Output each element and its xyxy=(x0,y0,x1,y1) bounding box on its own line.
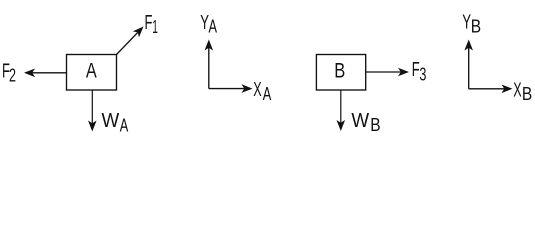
svg-text:B: B xyxy=(370,115,380,136)
svg-text:X: X xyxy=(253,78,261,101)
svg-text:X: X xyxy=(513,78,521,101)
svg-text:F: F xyxy=(145,11,153,34)
svg-text:B: B xyxy=(522,84,532,105)
svg-text:2: 2 xyxy=(9,66,16,86)
svg-text:A: A xyxy=(263,85,272,105)
svg-text:W: W xyxy=(102,110,120,133)
svg-text:Y: Y xyxy=(462,11,471,33)
svg-text:A: A xyxy=(86,60,97,84)
svg-text:B: B xyxy=(334,60,345,84)
svg-text:F: F xyxy=(412,58,420,81)
svg-text:3: 3 xyxy=(419,65,426,85)
svg-text:1: 1 xyxy=(152,17,158,38)
svg-text:A: A xyxy=(120,116,129,136)
svg-text:W: W xyxy=(351,109,369,132)
svg-text:Y: Y xyxy=(200,11,209,33)
svg-text:A: A xyxy=(209,17,218,37)
svg-text:B: B xyxy=(471,16,481,37)
